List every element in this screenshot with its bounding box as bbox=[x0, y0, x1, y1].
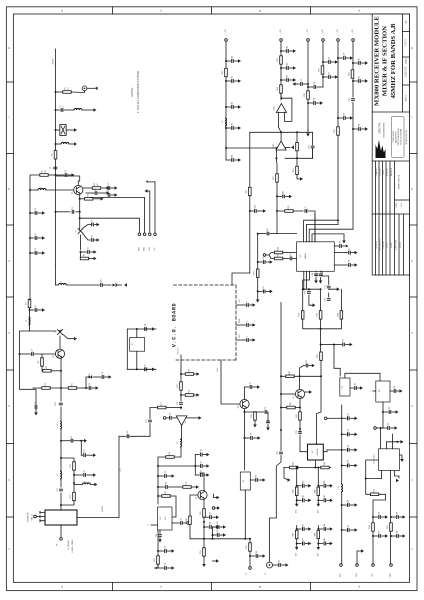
wire R18 to buffer rail bbox=[158, 457, 166, 504]
svg-text:C103: C103 bbox=[347, 460, 349, 465]
wire to R52 bbox=[249, 539, 251, 543]
capacitor C85 bbox=[256, 475, 258, 482]
wire U8 down bbox=[382, 402, 384, 412]
svg-text:C52: C52 bbox=[263, 286, 265, 289]
svg-text:C15: C15 bbox=[35, 305, 37, 308]
svg-text:C64: C64 bbox=[359, 124, 361, 127]
svg-text:C72: C72 bbox=[305, 291, 307, 294]
capacitor C28 bbox=[127, 431, 129, 438]
svg-text:R13: R13 bbox=[70, 495, 72, 498]
capacitor C35 bbox=[181, 518, 183, 525]
svg-text:C35: C35 bbox=[181, 518, 183, 521]
svg-text:C48: C48 bbox=[283, 191, 285, 194]
capacitor C40 bbox=[232, 56, 234, 63]
border zone tick right bbox=[410, 81, 418, 83]
ground bbox=[317, 547, 321, 550]
wire R14 out bbox=[194, 373, 197, 375]
capacitor C48 bbox=[283, 191, 285, 198]
ground bbox=[197, 372, 200, 376]
op-amp U2B bbox=[273, 141, 286, 150]
svg-text:R21: R21 bbox=[154, 558, 156, 561]
junction bbox=[180, 373, 182, 375]
ground bbox=[396, 410, 399, 414]
wire bbox=[159, 538, 161, 541]
svg-text:C61: C61 bbox=[359, 58, 361, 61]
wire bbox=[305, 499, 308, 501]
wire to C102 bbox=[300, 366, 305, 377]
ground bbox=[107, 186, 110, 190]
wire mixer drive 1 bbox=[80, 218, 140, 233]
junction bbox=[79, 211, 81, 213]
svg-text:R30: R30 bbox=[304, 93, 306, 96]
ground bbox=[217, 506, 220, 510]
wire L3 to Q1 base bbox=[46, 189, 74, 191]
resistor R43 bbox=[290, 462, 298, 468]
wire up bbox=[391, 434, 393, 442]
supply terminal bbox=[337, 39, 340, 42]
svg-text:C74: C74 bbox=[343, 339, 345, 342]
svg-text:C54: C54 bbox=[314, 98, 316, 101]
wire bbox=[60, 479, 62, 487]
svg-text:R48: R48 bbox=[314, 533, 316, 536]
resistor R33 bbox=[349, 70, 354, 78]
ground bbox=[94, 250, 97, 254]
wire bias bus bbox=[190, 538, 245, 540]
wire C53 out bbox=[295, 83, 300, 85]
wire C60 out bbox=[347, 117, 351, 119]
svg-text:C51: C51 bbox=[263, 257, 265, 260]
wire cluster feed bbox=[296, 482, 298, 486]
junction bbox=[341, 449, 343, 451]
ground bbox=[403, 515, 406, 519]
wire U7 pin bbox=[350, 387, 354, 389]
junction bbox=[296, 543, 298, 545]
wire R56 to X2 top bbox=[317, 360, 321, 444]
wire to C53 bbox=[304, 83, 309, 85]
junction bbox=[308, 288, 310, 290]
svg-text:L3: L3 bbox=[40, 187, 42, 189]
ground bbox=[365, 127, 368, 131]
wire C50 to node bbox=[270, 233, 277, 235]
wire C49 to IC pin bbox=[308, 211, 316, 242]
wire C59 out bbox=[347, 57, 351, 59]
wire U5 pin18 to rail 353 bbox=[309, 229, 353, 242]
ground bbox=[317, 504, 321, 507]
wire VCO tune line bbox=[221, 360, 240, 404]
wire TP5 stub bbox=[215, 507, 218, 509]
wire quad right bbox=[340, 289, 342, 311]
wire top-left supply rail bbox=[55, 49, 57, 151]
junction bbox=[29, 189, 31, 191]
capacitor C67 bbox=[349, 247, 351, 254]
ground bbox=[365, 79, 368, 83]
wire to C1 bbox=[56, 109, 61, 111]
wire emitter chain bbox=[203, 517, 205, 548]
junction bbox=[307, 86, 309, 88]
svg-text:C33: C33 bbox=[165, 471, 167, 474]
wire bbox=[200, 472, 204, 474]
wire U6 out rail bbox=[244, 490, 246, 539]
wire U9 out to header bbox=[390, 471, 392, 564]
transistor Q5 bbox=[196, 490, 208, 499]
capacitor C56 bbox=[329, 57, 331, 64]
wire bbox=[400, 535, 404, 537]
wire bbox=[305, 543, 308, 545]
junction bbox=[390, 535, 392, 537]
ground bbox=[396, 479, 399, 483]
wire C62 out bbox=[362, 80, 366, 82]
border zone tick top bbox=[111, 7, 113, 14]
wire to C28 bbox=[130, 424, 150, 437]
wire quad bus top bbox=[303, 288, 321, 290]
ground bbox=[355, 464, 358, 468]
wire to C11 bbox=[30, 237, 34, 239]
svg-text:C45: C45 bbox=[302, 481, 304, 484]
ground bbox=[238, 158, 241, 162]
wire bbox=[245, 538, 250, 540]
junction bbox=[299, 407, 301, 409]
junction bbox=[257, 290, 259, 292]
svg-text:C53: C53 bbox=[301, 79, 303, 82]
ground bbox=[93, 453, 96, 457]
resistor R18 bbox=[166, 452, 174, 458]
revision table column line bbox=[378, 214, 380, 275]
svg-text:45MHZ FOR BANDS A,B: 45MHZ FOR BANDS A,B bbox=[390, 23, 397, 99]
wire cluster feed bbox=[317, 526, 319, 530]
ground bbox=[206, 464, 209, 468]
ground bbox=[115, 193, 118, 197]
wire VOL rail bbox=[372, 523, 374, 564]
wire C25 out bbox=[148, 368, 153, 370]
svg-text:C56: C56 bbox=[329, 57, 331, 60]
wire to C38 bbox=[158, 567, 164, 569]
svg-text:SBL-1X: SBL-1X bbox=[32, 513, 34, 521]
svg-text:RF OUT: RF OUT bbox=[178, 347, 180, 355]
svg-text:R16: R16 bbox=[189, 390, 191, 393]
wire C45 out bbox=[290, 50, 294, 52]
resistor R11 bbox=[68, 383, 76, 389]
revision table column line bbox=[375, 214, 377, 275]
svg-text:R7: R7 bbox=[26, 302, 28, 304]
svg-text:R11: R11 bbox=[72, 383, 74, 386]
revision table column line bbox=[398, 214, 400, 275]
ground bbox=[124, 283, 127, 287]
svg-text:B: B bbox=[258, 585, 262, 587]
svg-text:R47: R47 bbox=[293, 533, 295, 536]
wire bbox=[320, 278, 322, 282]
ground bbox=[330, 542, 333, 546]
junction bbox=[352, 62, 354, 64]
capacitor C96 bbox=[379, 512, 381, 519]
svg-text:T2: T2 bbox=[55, 331, 57, 333]
wire Q1 to R4 bbox=[83, 187, 92, 189]
title table column line bbox=[394, 161, 396, 214]
svg-text:PHONE (619)2497000: PHONE (619)2497000 bbox=[400, 129, 402, 145]
transistor Q2 bbox=[238, 399, 250, 408]
ground bbox=[238, 126, 241, 130]
junction bbox=[280, 429, 282, 431]
capacitor C10 bbox=[35, 208, 37, 215]
wire D1 out bbox=[93, 376, 101, 378]
capacitor C64 bbox=[359, 124, 361, 131]
capacitor C59 bbox=[344, 53, 346, 60]
junction bbox=[341, 465, 343, 467]
wire U5 pin6 bbox=[321, 271, 323, 276]
wire U9 top pin2 bbox=[391, 442, 393, 449]
wire to C61 bbox=[353, 62, 358, 64]
capacitor C45 bbox=[302, 495, 304, 502]
junction bbox=[212, 538, 214, 540]
wire C4 out bbox=[68, 174, 72, 176]
ground bbox=[403, 534, 406, 538]
svg-text:SA605: SA605 bbox=[304, 253, 307, 259]
ground bbox=[196, 485, 199, 489]
wire stub out bbox=[250, 339, 254, 341]
ground bbox=[223, 533, 226, 537]
wire U5 pin17 bbox=[312, 234, 344, 242]
wire rail 250 to VCO tune bbox=[232, 273, 250, 285]
title table column line bbox=[385, 161, 387, 214]
wire bbox=[213, 526, 217, 528]
SPECTRA ENGINEERING logo mark bbox=[376, 140, 386, 158]
wire to mixer bbox=[60, 493, 62, 510]
wire R39 down bbox=[254, 420, 256, 425]
op-amp U2A bbox=[272, 104, 286, 113]
ground bbox=[217, 496, 220, 500]
wire quad center bbox=[320, 289, 322, 311]
svg-text:L5: L5 bbox=[57, 424, 59, 426]
wire mixer IF out bbox=[60, 525, 62, 537]
ground bbox=[309, 390, 312, 394]
svg-text:C50: C50 bbox=[267, 228, 269, 231]
wire L11 to C105 bbox=[66, 284, 99, 286]
wire rail 226 tail bbox=[225, 148, 227, 160]
wire bbox=[392, 411, 396, 413]
wire to C45 bbox=[281, 50, 286, 52]
svg-text:C18: C18 bbox=[102, 372, 104, 375]
wire to R35 bbox=[269, 255, 274, 259]
wire left bias rail down bbox=[30, 175, 40, 300]
junction bbox=[302, 288, 304, 290]
wire U5 pin16 (drawn above) bbox=[314, 215, 316, 242]
ground bbox=[253, 303, 256, 307]
wire C18 out bbox=[105, 376, 109, 378]
resistor R44 bbox=[321, 462, 329, 468]
wire to C95 bbox=[342, 529, 347, 531]
wire C65 to pin bbox=[293, 258, 297, 260]
resistor R49 bbox=[186, 516, 191, 524]
junction bbox=[317, 485, 319, 487]
junction bbox=[307, 83, 309, 85]
wire to C76 bbox=[255, 411, 264, 413]
wire U3 left pin bbox=[151, 524, 158, 526]
resistor R29 bbox=[254, 269, 259, 277]
wire loop to R26 bbox=[296, 158, 298, 166]
svg-text:C41: C41 bbox=[232, 76, 234, 79]
ground bbox=[172, 549, 175, 553]
junction bbox=[280, 375, 282, 377]
junction bbox=[203, 526, 205, 528]
connector RF IN bbox=[34, 515, 37, 518]
svg-text:C63: C63 bbox=[349, 98, 351, 101]
svg-text:C24: C24 bbox=[145, 324, 147, 327]
capacitor C46 bbox=[324, 481, 326, 488]
ground bbox=[337, 287, 340, 291]
wire to C74 bbox=[334, 344, 342, 346]
ground bbox=[95, 87, 98, 91]
junction bbox=[341, 417, 343, 419]
resistor R50 bbox=[200, 509, 205, 517]
wire to C71 bbox=[322, 276, 329, 285]
wire U5 out pin bbox=[334, 245, 338, 247]
svg-text:C13: C13 bbox=[108, 183, 110, 186]
wire to C30 bbox=[195, 454, 199, 456]
ground bbox=[355, 503, 358, 507]
transistor Q4 bbox=[53, 349, 65, 358]
wire emitter chain bbox=[60, 388, 62, 401]
junction bbox=[212, 534, 214, 536]
wire C104 out bbox=[257, 210, 263, 212]
wire bbox=[29, 298, 31, 301]
svg-text:C7: C7 bbox=[92, 220, 94, 222]
svg-text:D: D bbox=[60, 10, 64, 12]
VCO board dashed boundary bottom bbox=[176, 359, 236, 361]
capacitor C68 bbox=[349, 260, 351, 267]
svg-text:C37: C37 bbox=[165, 546, 167, 549]
wire X2 stub to rail bbox=[327, 449, 342, 451]
wire U9 top pin bbox=[387, 442, 398, 449]
wire U2A in down bbox=[277, 113, 279, 128]
table cell line bbox=[395, 199, 410, 201]
capacitor C41 bbox=[232, 76, 234, 83]
svg-text:NOTES:: NOTES: bbox=[130, 87, 134, 97]
wire R51 down bbox=[203, 556, 205, 564]
title block sheet cell line bbox=[403, 31, 410, 33]
ground bbox=[93, 473, 96, 477]
svg-text:30.11.01: 30.11.01 bbox=[400, 242, 402, 248]
wire feedback right lower bbox=[312, 149, 314, 158]
svg-text:R54: R54 bbox=[369, 525, 371, 528]
resistor R9 bbox=[43, 366, 51, 372]
title block divider line bbox=[372, 160, 409, 162]
wire U2B noninv stub bbox=[285, 147, 290, 149]
wire X2 matching bus bbox=[284, 467, 331, 469]
arrow terminal out bbox=[155, 567, 157, 569]
wire to C97 bbox=[373, 535, 378, 537]
wire U5 pin1 bbox=[303, 271, 305, 289]
wire to C34 bbox=[158, 486, 165, 488]
capacitor C13 bbox=[108, 183, 110, 190]
svg-text:C44: C44 bbox=[232, 155, 234, 158]
junction bbox=[333, 344, 335, 346]
capacitor C102 bbox=[306, 360, 308, 368]
junction bbox=[296, 131, 298, 133]
wire to C75 bbox=[245, 386, 250, 388]
svg-text:1: 1 bbox=[370, 390, 372, 391]
svg-text:R17: R17 bbox=[161, 402, 163, 405]
svg-text:C73: C73 bbox=[325, 298, 327, 301]
resistor R28 bbox=[285, 206, 293, 212]
wire to R40 bbox=[281, 375, 286, 377]
terminal TP6 bbox=[324, 417, 327, 420]
wire bus to cluster A bbox=[296, 468, 298, 483]
wire U5 pin2 bbox=[306, 271, 308, 285]
border zone tick left bbox=[6, 516, 13, 518]
junction bbox=[244, 411, 246, 413]
wire C71 out bbox=[329, 288, 338, 290]
IC X2 bbox=[308, 444, 324, 460]
wire to R53 bbox=[366, 479, 371, 495]
supply terminal bbox=[352, 39, 355, 42]
svg-text:R31: R31 bbox=[319, 68, 321, 71]
capacitor C26 bbox=[177, 402, 183, 405]
capacitor C20 1n bbox=[55, 402, 63, 405]
wire rail 308 tail bbox=[307, 130, 309, 134]
wire rail 353 to IC staircase bbox=[352, 102, 354, 229]
wire C5 out bbox=[98, 192, 107, 194]
junction bbox=[60, 387, 62, 389]
wire C48 out bbox=[286, 195, 290, 197]
wire bbox=[397, 441, 401, 443]
junction bbox=[352, 128, 354, 130]
wire to C9 bbox=[81, 251, 87, 253]
junction bbox=[337, 219, 339, 221]
capacitor C81 bbox=[277, 451, 283, 454]
svg-text:MIXER M1: MIXER M1 bbox=[28, 511, 30, 522]
junction bbox=[225, 80, 227, 82]
wire bbox=[320, 319, 322, 329]
border zone tick left bbox=[6, 296, 13, 298]
wire rail 353 bbox=[352, 41, 354, 97]
svg-text:C20: C20 bbox=[55, 402, 57, 405]
svg-text:C65: C65 bbox=[290, 253, 292, 256]
IC U6 bbox=[240, 472, 250, 490]
svg-text:C89: C89 bbox=[389, 407, 391, 410]
wire C24 out bbox=[148, 328, 153, 330]
wire to FL1 bbox=[56, 129, 60, 131]
wire to C33 bbox=[158, 475, 164, 477]
wire +8V header rail lower bbox=[341, 492, 343, 564]
wire bbox=[327, 499, 330, 501]
svg-text:C59: C59 bbox=[344, 53, 346, 56]
wire to C56 bbox=[323, 61, 328, 63]
wire C102 out bbox=[309, 365, 312, 367]
wire feedback loop left bbox=[20, 331, 37, 405]
svg-text:C96: C96 bbox=[379, 512, 381, 515]
wire FL1 out bbox=[66, 129, 74, 131]
resistor R21 bbox=[154, 556, 159, 564]
ground bbox=[291, 146, 294, 150]
junction bbox=[322, 61, 324, 63]
wire R4 out bbox=[101, 187, 107, 189]
junction bbox=[320, 288, 322, 290]
resistor R31 bbox=[319, 66, 324, 74]
wire to L2 bbox=[56, 143, 62, 145]
junction bbox=[249, 210, 251, 212]
capacitor C15 bbox=[35, 305, 37, 312]
resistor R53 bbox=[370, 489, 378, 495]
svg-text:R51: R51 bbox=[200, 550, 202, 553]
wire X2 top stub bbox=[315, 443, 316, 445]
svg-text:MIXER & IF SECTION: MIXER & IF SECTION bbox=[382, 26, 389, 96]
wire feedback right upper bbox=[312, 132, 314, 145]
IC U5 bbox=[297, 242, 335, 271]
junction bbox=[320, 344, 322, 346]
svg-text:R36: R36 bbox=[299, 313, 301, 316]
capacitor C107 bbox=[308, 145, 314, 150]
wire mixer LO feed bbox=[77, 436, 119, 517]
wire rail 323 bbox=[322, 41, 324, 87]
